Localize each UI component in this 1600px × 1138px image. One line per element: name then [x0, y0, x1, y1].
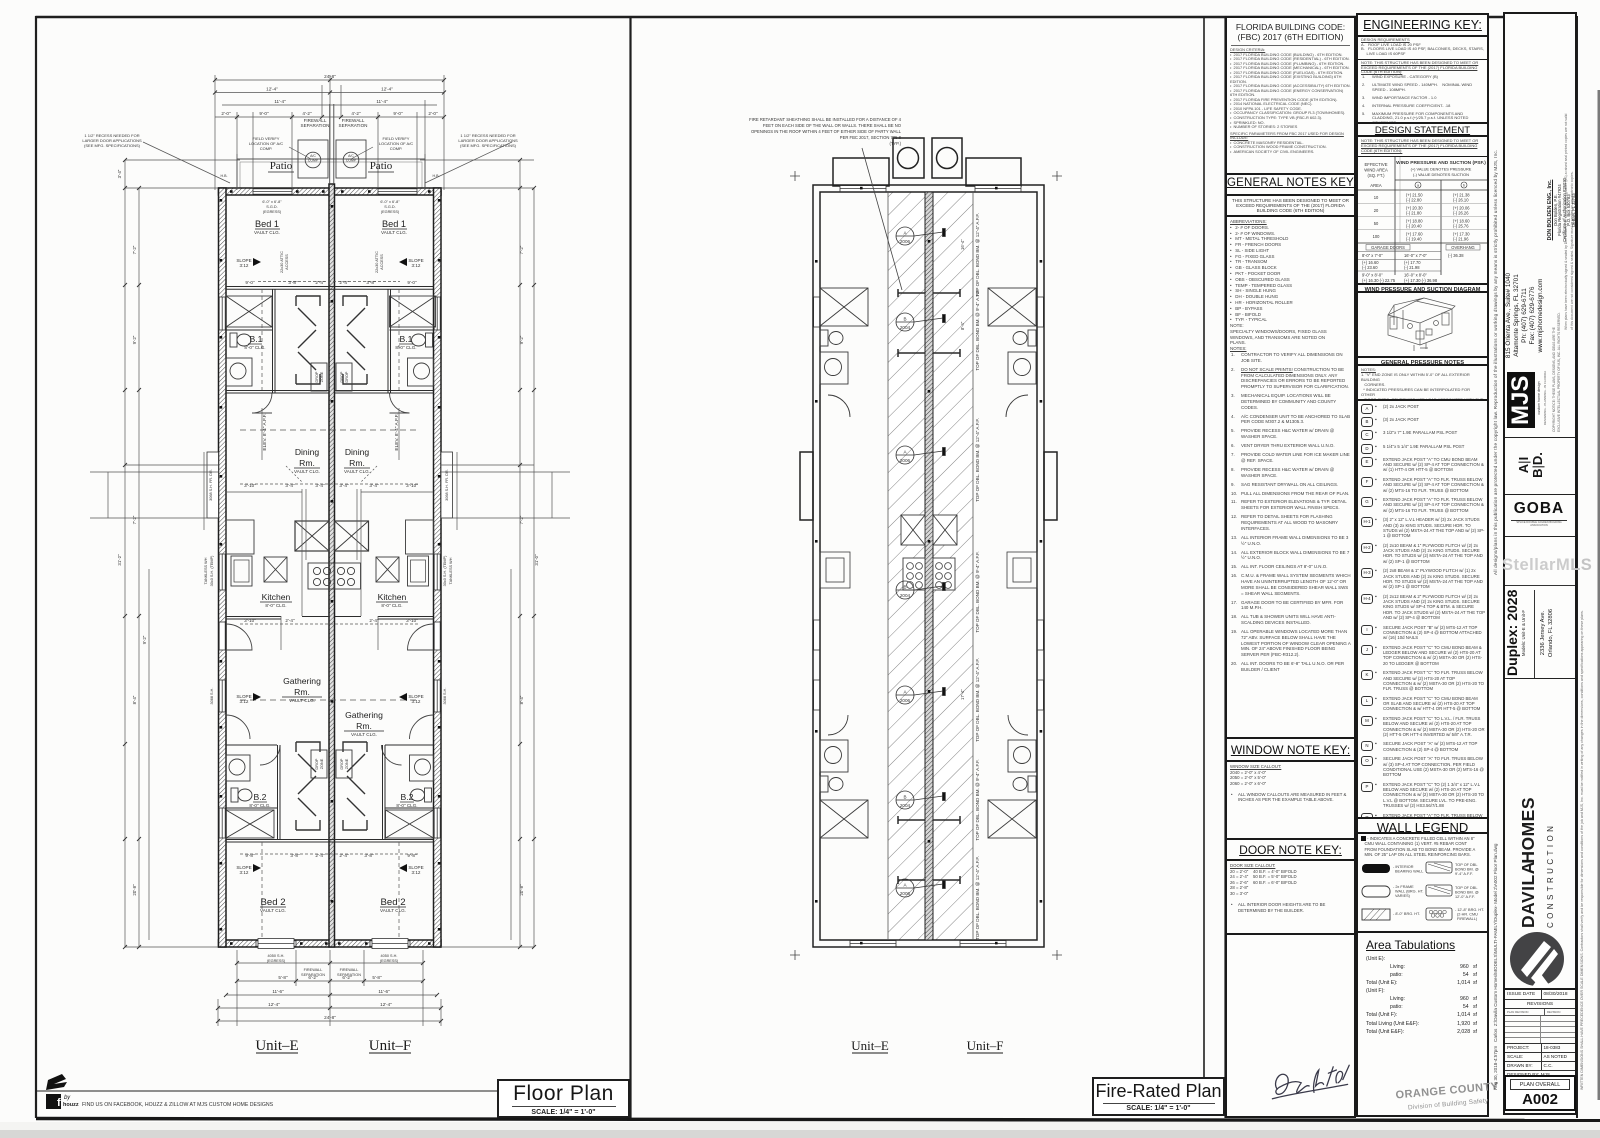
svg-text:(-) 26.26: (-) 26.26	[1453, 211, 1469, 216]
svg-text:BOND BM. @: BOND BM. @	[1455, 891, 1479, 895]
svg-text:BEARING WALL: BEARING WALL	[1395, 870, 1423, 874]
svg-text:FEET ON EACH SIDE OF THE WALL: FEET ON EACH SIDE OF THE WALL OR WALLS. …	[763, 123, 902, 128]
svg-text:17'-4": 17'-4"	[960, 689, 965, 700]
svg-text:TOP OF DBL. BOND BM. @ 9'-4" A: TOP OF DBL. BOND BM. @ 9'-4" A.F.F.	[975, 759, 980, 840]
svg-text:2006: 2006	[900, 698, 911, 703]
svg-text:BOND BM. @: BOND BM. @	[1455, 868, 1479, 872]
svg-text:TOP OF DBL. BOND BM. @ 12'-4": TOP OF DBL. BOND BM. @ 12'-4" A.F.F.	[975, 856, 980, 940]
svg-text:Unit–E: Unit–E	[851, 1038, 889, 1053]
svg-text:OPENINGS IN THE ROOF WITHIN 4: OPENINGS IN THE ROOF WITHIN 4 FEET OF EI…	[751, 129, 902, 134]
svg-text:FIND US ON FACEBOOK, HOUZZ & Z: FIND US ON FACEBOOK, HOUZZ & ZILLOW AT M…	[82, 1102, 274, 1108]
svg-text:(-) 23.60: (-) 23.60	[1362, 265, 1378, 270]
svg-text:B: B	[903, 585, 906, 590]
svg-text:(-) 25.76: (-) 25.76	[1453, 224, 1469, 229]
svg-text:B: B	[903, 795, 906, 800]
svg-text:16'-4": 16'-4"	[960, 239, 965, 250]
svg-text:(-) 21.80: (-) 21.80	[1406, 211, 1422, 216]
svg-text:- 8'-0" BRG. HT.: - 8'-0" BRG. HT.	[1393, 912, 1420, 916]
svg-text:EFFECTIVE: EFFECTIVE	[1364, 162, 1387, 167]
svg-text:2006: 2006	[900, 458, 911, 463]
svg-text:(TYP.): (TYP.)	[889, 141, 901, 146]
svg-text:TOP OF DBL. BOND BM. @ 12'-4": TOP OF DBL. BOND BM. @ 12'-4" A.F.F.	[975, 658, 980, 742]
svg-text:- INTERIOR: - INTERIOR	[1393, 865, 1414, 869]
svg-text:9'-4" A.F.F.: 9'-4" A.F.F.	[1455, 872, 1473, 876]
svg-text:WALL (BRG. HT.: WALL (BRG. HT.	[1395, 890, 1423, 894]
svg-text:FIRE RETARDANT SHEATHING SHALL: FIRE RETARDANT SHEATHING SHALL BE INSTAL…	[749, 117, 902, 122]
svg-text:10: 10	[1374, 195, 1379, 200]
svg-text:(-) 26.10: (-) 26.10	[1453, 198, 1469, 203]
svg-text:TOP OF DBL. BOND BM. @ 9'-4" A: TOP OF DBL. BOND BM. @ 9'-4" A.F.F.	[975, 551, 980, 632]
svg-text:b: b	[1463, 184, 1465, 188]
svg-text:Unit–F: Unit–F	[967, 1038, 1004, 1053]
svg-text:VARIES): VARIES)	[1395, 894, 1411, 898]
svg-text:GARAGE DOORS: GARAGE DOORS	[1371, 245, 1405, 250]
svg-text:2006: 2006	[900, 239, 911, 244]
svg-text:(-) 21.98: (-) 21.98	[1404, 265, 1420, 270]
svg-text:8'-0" x 7'-0": 8'-0" x 7'-0"	[1362, 253, 1383, 258]
svg-text:TOP OF DBL: TOP OF DBL	[1455, 863, 1477, 867]
svg-text:WIND AREA: WIND AREA	[1364, 168, 1388, 173]
svg-text:(-) 20.40: (-) 20.40	[1406, 224, 1422, 229]
svg-text:(-) 19.40: (-) 19.40	[1406, 237, 1422, 242]
svg-text:(2-HR. CMU: (2-HR. CMU	[1457, 913, 1478, 917]
svg-text:(-) VALUE DENOTES SUCTION: (-) VALUE DENOTES SUCTION	[1413, 172, 1469, 177]
svg-text:Unit–F: Unit–F	[369, 1038, 412, 1054]
svg-text:9'-0" x 8'-0": 9'-0" x 8'-0"	[1362, 273, 1383, 278]
svg-text:16'-0" x 7'-0": 16'-0" x 7'-0"	[1404, 253, 1427, 258]
svg-text:(-) 21.96: (-) 21.96	[1453, 237, 1469, 242]
svg-text:- 2x FRAME: - 2x FRAME	[1393, 885, 1414, 889]
svg-text:(-) 36.38: (-) 36.38	[1448, 253, 1464, 258]
svg-text:FIREWALL): FIREWALL)	[1457, 917, 1478, 921]
svg-text:B: B	[903, 317, 906, 322]
svg-text:2004: 2004	[900, 593, 911, 598]
svg-text:12'-0" A.F.F.: 12'-0" A.F.F.	[1455, 895, 1475, 899]
svg-text:TOP OF DBL. BOND BM. @ 12'-4": TOP OF DBL. BOND BM. @ 12'-4" A.F.F.	[975, 213, 980, 297]
svg-text:20: 20	[1374, 208, 1379, 213]
svg-text:houzz: houzz	[63, 1102, 79, 1108]
svg-text:(SQ. FT.): (SQ. FT.)	[1368, 173, 1386, 178]
svg-text:OVERHANG: OVERHANG	[1451, 245, 1474, 250]
svg-text:Unit–E: Unit–E	[255, 1038, 298, 1054]
svg-text:TOP OF DBL. BOND BM. @ 9'-4" A: TOP OF DBL. BOND BM. @ 9'-4" A.F.F.	[975, 289, 980, 370]
svg-text:f: f	[57, 1097, 61, 1109]
svg-text:a: a	[1417, 184, 1419, 188]
svg-text:50: 50	[1374, 221, 1379, 226]
svg-text:(+) VALUE DENOTES PRESSURE: (+) VALUE DENOTES PRESSURE	[1411, 167, 1472, 172]
svg-text:AREA: AREA	[1370, 183, 1382, 188]
svg-text:WIND PRESSURE AND SUCTION (PSF: WIND PRESSURE AND SUCTION (PSF.)	[1396, 160, 1486, 166]
svg-text:16'-0" x 8'-0": 16'-0" x 8'-0"	[1404, 273, 1427, 278]
svg-text:2006: 2006	[900, 891, 911, 896]
svg-text:TOP OF DBL. BOND BM. @ 12'-4": TOP OF DBL. BOND BM. @ 12'-4" A.F.F.	[975, 418, 980, 502]
svg-text:- 12'-8" BRG. HT.: - 12'-8" BRG. HT.	[1455, 908, 1484, 912]
svg-text:𝑏𝑦: 𝑏𝑦	[64, 1094, 70, 1101]
svg-text:100: 100	[1373, 234, 1381, 239]
svg-text:(+) 16.30 (-) 22.75: (+) 16.30 (-) 22.75	[1362, 278, 1396, 283]
svg-text:(-) 22.80: (-) 22.80	[1406, 198, 1422, 203]
svg-text:(+) 17.30 (-) 36.98: (+) 17.30 (-) 36.98	[1404, 278, 1438, 283]
svg-text:PER FBC 2017, SECTION 705.8: PER FBC 2017, SECTION 705.8	[840, 135, 902, 140]
svg-text:2004: 2004	[900, 803, 911, 808]
svg-text:2004: 2004	[900, 325, 911, 330]
svg-text:8'-4": 8'-4"	[960, 321, 965, 330]
svg-text:TOP OF DBL: TOP OF DBL	[1455, 886, 1477, 890]
